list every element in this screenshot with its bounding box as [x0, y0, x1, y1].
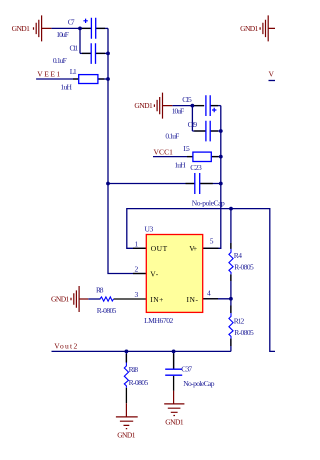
svg-text:No-poleCap: No-poleCap	[183, 379, 215, 388]
pin U3 pin2	[133, 273, 146, 275]
svg-text:C7: C7	[68, 18, 75, 27]
svg-text:R-0805: R-0805	[129, 378, 149, 387]
pin C15 right	[210, 105, 218, 107]
svg-text:GND1: GND1	[134, 101, 153, 110]
wire feeder C7 to C11	[79, 28, 81, 53]
wire C23 right lead	[200, 183, 221, 185]
svg-text:C37: C37	[181, 365, 192, 374]
svg-text:3: 3	[135, 290, 139, 299]
resistor R12	[229, 313, 233, 339]
wire VCC bus to op-amp pin 5	[203, 106, 221, 249]
wire L1 right lead	[98, 78, 108, 80]
svg-text:V+: V+	[189, 244, 197, 253]
wire GND1 to C7 row	[51, 27, 91, 29]
pin L5 right	[211, 156, 218, 158]
capacitor C11	[91, 43, 95, 64]
junction node L1/bus	[106, 77, 110, 81]
wire C7 right lead	[96, 27, 108, 29]
pin R12 bottom	[230, 339, 232, 346]
pin L1 left	[73, 78, 79, 80]
svg-text:10uF: 10uF	[56, 30, 69, 39]
wire R18 top lead	[125, 351, 127, 362]
svg-text:R18: R18	[129, 365, 139, 374]
pin C11 right	[96, 52, 106, 54]
pin C19 right	[210, 130, 218, 132]
svg-text:R12: R12	[234, 317, 245, 326]
pin U3 pin4	[203, 298, 218, 300]
svg-text:GND1: GND1	[165, 418, 184, 427]
junction node pin4/R4/R12	[229, 297, 233, 301]
svg-text:R4: R4	[234, 251, 243, 260]
inductor L1	[79, 75, 98, 84]
wire VEE bus to op-amp pin 2	[108, 28, 146, 273]
junction node R18/Vout2	[125, 350, 129, 354]
pin R18 bottom	[125, 388, 127, 403]
svg-text:R-0805: R-0805	[234, 328, 254, 337]
wire L5 right lead	[211, 156, 221, 158]
capacitor C37	[165, 369, 182, 375]
junction node C23/VCC bus	[219, 182, 223, 186]
junction node L5/bus	[219, 155, 223, 159]
ground earth below R18	[116, 403, 138, 428]
svg-text:1uH: 1uH	[175, 160, 187, 169]
svg-text:L5: L5	[183, 144, 190, 153]
svg-text:R-0805: R-0805	[234, 263, 254, 272]
svg-text:10uF: 10uF	[172, 107, 185, 116]
wire C11 left lead	[80, 52, 91, 54]
pin C7 right	[96, 27, 105, 29]
capacitor C19	[206, 121, 210, 142]
power port GND1 top-right	[260, 15, 275, 41]
pin C19 left	[194, 130, 206, 132]
svg-text:C15: C15	[182, 95, 192, 104]
wire VEE1 net	[36, 78, 79, 80]
wire C37 top lead	[173, 351, 175, 368]
svg-text:LMH6702: LMH6702	[144, 316, 173, 325]
svg-text:R-0805: R-0805	[97, 306, 117, 315]
svg-text:R8: R8	[96, 286, 104, 295]
pin R8 right	[114, 298, 147, 300]
pin C15 left	[194, 105, 204, 107]
wire C23 left lead	[108, 183, 195, 185]
wire OUT loop pin1 up and right to output	[127, 209, 275, 352]
svg-text:OUT: OUT	[151, 244, 168, 253]
junction node C37/Vout2	[172, 350, 176, 354]
wire R12 bottom to Vout2	[230, 339, 232, 352]
wire R4 bottom to R12 top	[230, 274, 232, 313]
inductor L5	[193, 152, 211, 161]
wire C11 right lead	[96, 52, 109, 54]
pin C23 left	[186, 183, 195, 185]
svg-text:GND1: GND1	[117, 430, 136, 439]
svg-text:GND1: GND1	[12, 24, 31, 33]
wire Vout2 net	[52, 350, 231, 352]
junction node C19/bus	[219, 129, 223, 133]
wire VEE1 stub top-right	[269, 80, 276, 82]
plus sign C15	[212, 108, 216, 112]
wire feeder C15 to C19	[191, 106, 193, 131]
wire node to R4 top	[230, 209, 232, 249]
junction node C15/GND	[191, 104, 195, 108]
svg-text:1uH: 1uH	[60, 83, 72, 92]
pin U3 pin1	[133, 247, 146, 249]
power port GND1 at R8	[71, 286, 88, 312]
svg-text:C23: C23	[190, 163, 202, 172]
junction node C7/GND	[78, 27, 82, 31]
pin L5 left	[187, 156, 193, 158]
wire C15 right lead	[210, 105, 220, 107]
svg-text:IN-: IN-	[187, 295, 199, 304]
power port GND1 block1	[34, 15, 52, 41]
svg-text:L1: L1	[70, 67, 77, 76]
capacitor C23	[195, 173, 200, 194]
svg-text:U3: U3	[145, 224, 154, 233]
svg-text:No-poleCap: No-poleCap	[192, 199, 225, 208]
svg-text:0.1uF: 0.1uF	[165, 131, 179, 140]
svg-text:1: 1	[135, 239, 139, 248]
svg-text:VCC1: VCC1	[154, 147, 174, 156]
capacitor C15	[206, 95, 210, 116]
svg-text:IN+: IN+	[150, 295, 163, 304]
junction node C23/VEE bus	[106, 182, 110, 186]
pin U3 pin5	[203, 247, 219, 249]
svg-text:Vout2: Vout2	[54, 342, 77, 351]
wire pin4 to R column	[203, 298, 231, 300]
resistor R18	[124, 363, 128, 388]
pin R12 top	[230, 306, 232, 314]
wire GND1 to R8	[88, 298, 100, 300]
resistor R4	[229, 249, 233, 275]
svg-text:5: 5	[210, 237, 214, 246]
svg-text:GND1: GND1	[51, 295, 70, 304]
junction node C11/bus	[106, 52, 110, 56]
pin L1 right	[98, 78, 104, 80]
plus sign C7	[83, 19, 87, 23]
op-amp U1 body	[146, 235, 202, 313]
resistor R8	[100, 297, 114, 301]
wire C19 right lead	[210, 130, 221, 132]
svg-text:V-: V-	[150, 270, 158, 279]
ground earth below C37	[164, 391, 184, 416]
wire C19 left lead	[192, 130, 206, 132]
pin C7 left	[82, 27, 92, 29]
pin C23 right	[200, 183, 213, 185]
pin C37 top	[173, 354, 175, 369]
svg-text:C19: C19	[188, 120, 198, 129]
wire GND1 to C15 row	[172, 105, 204, 107]
svg-text:4: 4	[207, 289, 211, 298]
wire VCC1 net	[153, 156, 193, 158]
pin R18 top	[125, 354, 127, 363]
svg-text:0.1uF: 0.1uF	[53, 56, 67, 65]
pin C11 left	[82, 52, 91, 54]
capacitor C7	[91, 18, 95, 39]
pin C37 bottom	[173, 376, 175, 391]
pin R4 top	[230, 243, 232, 249]
svg-text:2: 2	[135, 265, 139, 274]
junction node OUT/R4	[229, 207, 233, 211]
svg-text:C11: C11	[70, 44, 79, 53]
pin R4 bottom	[230, 274, 232, 281]
svg-text:GND1: GND1	[240, 24, 259, 33]
power port GND1 block2	[154, 93, 172, 119]
